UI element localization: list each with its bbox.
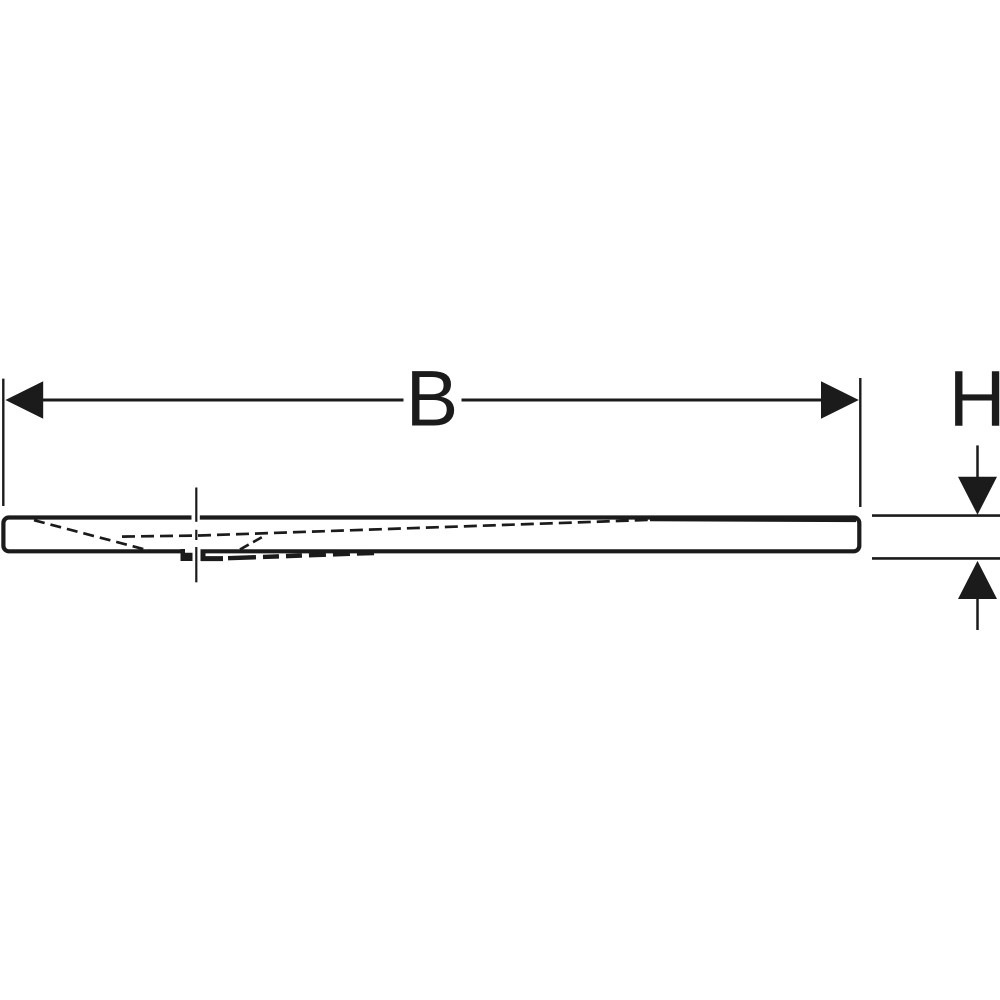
- drain pocket left step under bottom edge: [181, 549, 193, 561]
- svg-text:H: H: [949, 353, 1000, 442]
- extension line left (for B): [2, 379, 4, 506]
- dimension line B left segment: [43, 399, 404, 402]
- svg-text:B: B: [406, 353, 459, 442]
- extension line bottom of tray (H): [872, 557, 1000, 560]
- arrowhead left of B dimension: [5, 381, 43, 418]
- tray outline: [3, 518, 859, 552]
- H dimension lower vertical line: [976, 599, 979, 631]
- drain centerline lower segment: [195, 547, 197, 582]
- gap in tray bottom edge at drain: [185, 547, 201, 554]
- H dimension upper vertical line: [976, 445, 979, 477]
- extension line top of tray (H): [872, 514, 1000, 517]
- drain centerline short middle dash: [195, 530, 197, 540]
- drain pocket right hook under bottom edge: [203, 553, 223, 559]
- extension line right (for B): [859, 378, 861, 507]
- gap in tray top edge at drain: [192, 513, 200, 522]
- dashed channel right wall: [240, 536, 264, 550]
- dashed slope line from left rim down to channel: [34, 520, 150, 551]
- drain centerline upper segment: [195, 488, 197, 522]
- dimension line B right segment: [462, 399, 822, 402]
- dashed channel underside tapering right: [228, 553, 374, 558]
- dashed floor slope line rising to right rim: [122, 520, 655, 537]
- arrowhead down of H dimension: [958, 477, 997, 515]
- arrowhead right of B dimension: [821, 381, 859, 418]
- dashed line merged under top edge right part: [650, 519, 856, 523]
- arrowhead up of H dimension: [958, 561, 997, 599]
